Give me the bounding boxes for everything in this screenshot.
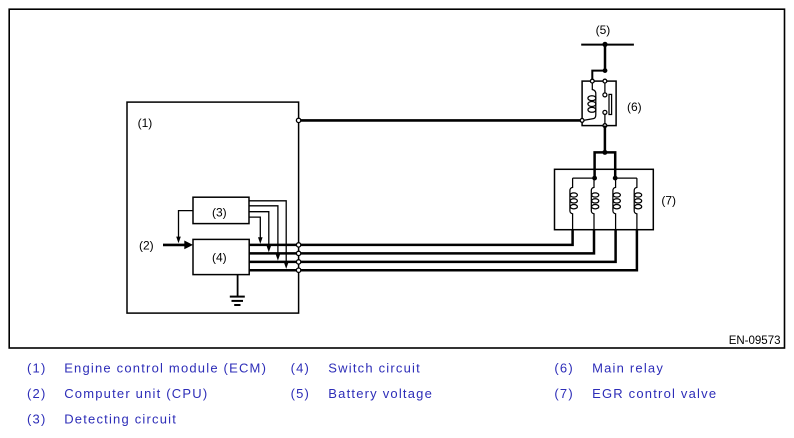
wire (3) to CPU input with down arrow [176, 211, 193, 244]
svg-text:(3): (3) [27, 412, 47, 427]
switch circuit box (4) [193, 239, 249, 274]
EGR coil 1 [570, 178, 578, 230]
svg-text:(1): (1) [138, 116, 153, 130]
relay contact wire bottom [604, 114, 606, 125]
ECM terminal bus3 [296, 260, 300, 264]
wire bus1 (4) to EGR coil1 [249, 230, 573, 245]
relay terminal coil top [590, 79, 594, 83]
EGR coil 3 [613, 178, 621, 230]
relay coil loop 1 [588, 96, 596, 101]
svg-text:(6): (6) [627, 100, 642, 114]
wire (3) to bus3 with down arrow [249, 206, 280, 261]
svg-text:Engine control module (ECM): Engine control module (ECM) [64, 361, 267, 376]
relay coil wire [584, 81, 596, 120]
wire (3) to bus4 with down arrow [249, 201, 289, 269]
wire (3) to bus1 with down arrow [249, 217, 263, 244]
ECM terminal to relay [296, 118, 300, 122]
svg-text:Battery voltage: Battery voltage [328, 386, 433, 401]
svg-text:(7): (7) [661, 194, 676, 208]
wire battery to relay [604, 45, 607, 71]
svg-text:(3): (3) [212, 206, 227, 220]
wire branch to relay coil terminal [592, 71, 605, 81]
svg-text:EGR control valve: EGR control valve [592, 386, 717, 401]
relay coil loop 2 [588, 102, 596, 107]
ground [230, 297, 245, 305]
junction dot above relay [603, 68, 608, 73]
junction dot valve right [613, 176, 618, 181]
junction dot valve left [592, 176, 597, 181]
main relay box (6) [582, 81, 616, 126]
battery voltage bar (5) [581, 44, 634, 46]
EGR valve box (7) [555, 169, 654, 229]
svg-text:(5): (5) [596, 23, 611, 37]
svg-text:EN-09573: EN-09573 [729, 335, 781, 347]
ECM terminal bus2 [296, 251, 300, 255]
wire to coil4 top [615, 177, 637, 179]
svg-text:(4): (4) [212, 251, 227, 265]
relay terminal bottom [603, 124, 607, 128]
svg-text:(6): (6) [554, 361, 574, 376]
relay coil loop 3 [588, 107, 596, 112]
wire bus3 (4) to EGR coil3 [249, 230, 616, 262]
svg-text:Detecting circuit: Detecting circuit [64, 412, 177, 427]
ground wire [237, 275, 239, 297]
svg-text:(2): (2) [27, 386, 47, 401]
EGR coil 4 [634, 178, 642, 230]
wire to coil1 top [573, 177, 595, 179]
wire bus2 (4) to EGR coil2 [249, 230, 594, 254]
detecting circuit box (3) [193, 197, 249, 223]
relay contact wire top [604, 81, 606, 93]
relay terminal contact top [603, 79, 607, 83]
ECM terminal bus4 [296, 268, 300, 272]
junction dot above valve [602, 150, 607, 155]
svg-text:Computer unit (CPU): Computer unit (CPU) [64, 386, 208, 401]
relay terminal coil left [580, 119, 584, 123]
svg-text:(1): (1) [27, 361, 47, 376]
relay contact point lower [603, 110, 607, 114]
svg-text:Main relay: Main relay [592, 361, 664, 376]
svg-text:(5): (5) [291, 386, 311, 401]
wire relay to EGR valve [604, 126, 607, 153]
EGR coil 2 [591, 178, 599, 230]
svg-text:(7): (7) [554, 386, 574, 401]
wire (3) to bus2 with down arrow [249, 212, 271, 253]
relay contact point upper [603, 93, 607, 97]
wire split into valve [595, 152, 616, 178]
svg-text:(4): (4) [291, 361, 311, 376]
CPU input arrow (2) [163, 241, 193, 250]
ECM terminal bus1 [296, 243, 300, 247]
ECM box (1) [127, 102, 299, 313]
relay contact bar [609, 94, 612, 114]
svg-text:Switch circuit: Switch circuit [328, 361, 421, 376]
junction dot on battery bar [602, 42, 607, 47]
wire ECM to relay coil [299, 119, 582, 122]
wire bus4 (4) to EGR coil4 [249, 230, 637, 271]
svg-text:(2): (2) [139, 239, 154, 253]
